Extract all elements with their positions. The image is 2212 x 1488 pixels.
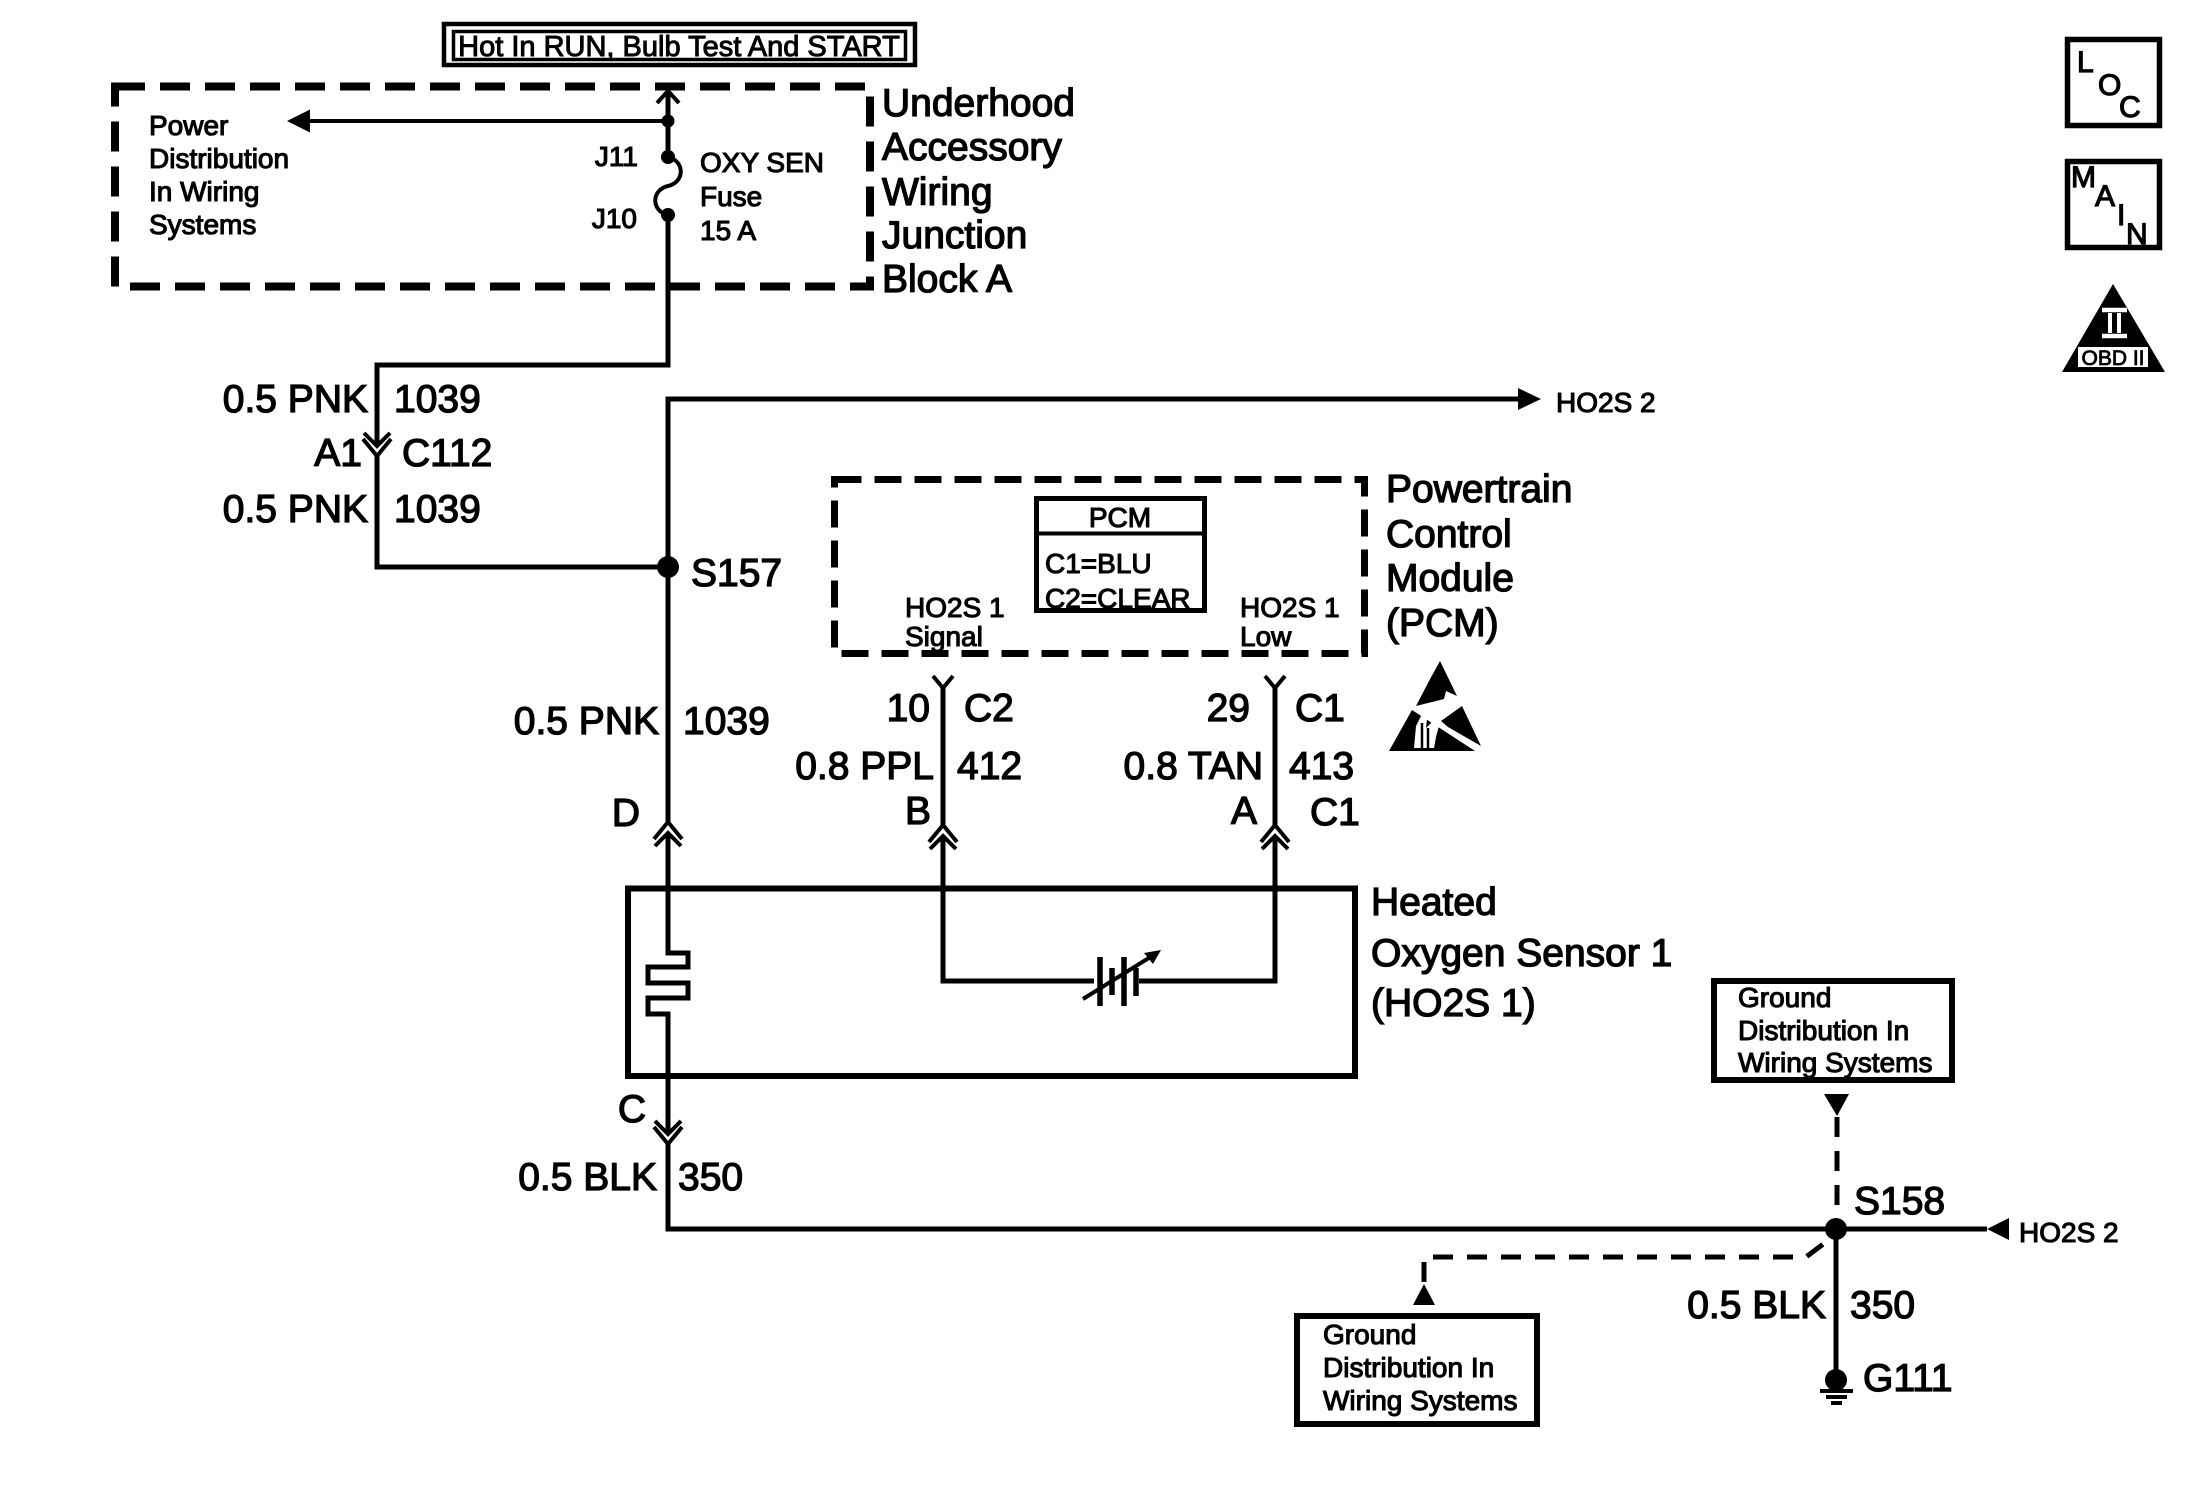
svg-text:C: C <box>618 1088 646 1131</box>
svg-text:J11: J11 <box>595 141 638 172</box>
svg-text:Power: Power <box>149 110 228 141</box>
svg-text:L: L <box>2077 46 2094 79</box>
svg-text:OXY SEN: OXY SEN <box>700 147 824 178</box>
svg-text:M: M <box>2071 161 2096 194</box>
svg-text:Control: Control <box>1386 513 1512 556</box>
svg-text:HO2S 1: HO2S 1 <box>905 592 1005 623</box>
svg-text:0.5 BLK: 0.5 BLK <box>1687 1284 1826 1327</box>
svg-text:J10: J10 <box>592 203 637 234</box>
svg-text:Distribution: Distribution <box>149 143 289 174</box>
svg-text:0.8 PPL: 0.8 PPL <box>795 745 934 788</box>
svg-text:0.5 PNK: 0.5 PNK <box>514 700 659 743</box>
svg-text:0.8 TAN: 0.8 TAN <box>1124 745 1263 788</box>
svg-text:I: I <box>2117 199 2125 232</box>
svg-text:Oxygen Sensor 1: Oxygen Sensor 1 <box>1371 932 1672 975</box>
svg-text:A1: A1 <box>314 432 362 475</box>
svg-text:Block A: Block A <box>882 258 1012 301</box>
svg-text:A: A <box>1231 790 1257 833</box>
svg-text:Underhood: Underhood <box>882 82 1075 125</box>
svg-text:(PCM): (PCM) <box>1386 602 1499 645</box>
svg-text:Powertrain: Powertrain <box>1386 468 1572 511</box>
svg-text:N: N <box>2126 218 2148 251</box>
svg-text:15 A: 15 A <box>700 215 756 246</box>
svg-text:PCM: PCM <box>1089 502 1151 533</box>
svg-text:1039: 1039 <box>683 700 770 743</box>
svg-text:Wiring: Wiring <box>882 171 993 214</box>
svg-text:Hot In RUN, Bulb Test And STAR: Hot In RUN, Bulb Test And START <box>458 31 900 63</box>
svg-text:0.5 BLK: 0.5 BLK <box>518 1156 657 1199</box>
svg-text:Low: Low <box>1240 621 1292 652</box>
svg-text:Ground: Ground <box>1738 982 1831 1013</box>
svg-text:Accessory: Accessory <box>882 126 1062 169</box>
svg-text:S158: S158 <box>1854 1180 1945 1223</box>
svg-text:C2=CLEAR: C2=CLEAR <box>1045 583 1191 614</box>
svg-text:C1=BLU: C1=BLU <box>1045 548 1152 579</box>
svg-text:Distribution In: Distribution In <box>1323 1352 1494 1383</box>
svg-text:350: 350 <box>1850 1284 1915 1327</box>
svg-text:29: 29 <box>1207 687 1250 730</box>
svg-text:C112: C112 <box>402 432 492 475</box>
svg-text:Fuse: Fuse <box>700 181 762 212</box>
svg-text:Junction: Junction <box>882 214 1027 257</box>
svg-text:S157: S157 <box>691 552 782 595</box>
svg-text:C2: C2 <box>964 687 1014 730</box>
svg-text:Systems: Systems <box>149 209 256 240</box>
svg-text:Wiring Systems: Wiring Systems <box>1323 1385 1517 1416</box>
svg-text:1039: 1039 <box>394 488 481 531</box>
svg-text:0.5 PNK: 0.5 PNK <box>223 378 368 421</box>
svg-text:10: 10 <box>887 687 930 730</box>
svg-text:In Wiring: In Wiring <box>149 176 259 207</box>
svg-text:(HO2S 1): (HO2S 1) <box>1371 982 1536 1025</box>
svg-text:B: B <box>905 790 931 833</box>
svg-text:A: A <box>2095 180 2115 213</box>
svg-text:O: O <box>2098 69 2121 102</box>
svg-text:Heated: Heated <box>1371 881 1497 924</box>
svg-text:Ground: Ground <box>1323 1319 1416 1350</box>
svg-text:HO2S 1: HO2S 1 <box>1240 592 1340 623</box>
svg-text:0.5 PNK: 0.5 PNK <box>223 488 368 531</box>
svg-text:C: C <box>2119 91 2141 124</box>
svg-text:HO2S 2: HO2S 2 <box>2019 1217 2119 1248</box>
svg-text:Distribution In: Distribution In <box>1738 1015 1909 1046</box>
svg-text:C1: C1 <box>1295 687 1345 730</box>
svg-text:HO2S 2: HO2S 2 <box>1556 387 1656 418</box>
svg-text:D: D <box>612 792 640 835</box>
svg-text:413: 413 <box>1289 745 1354 788</box>
svg-text:412: 412 <box>957 745 1022 788</box>
svg-text:350: 350 <box>678 1156 743 1199</box>
svg-text:Wiring Systems: Wiring Systems <box>1738 1047 1932 1078</box>
svg-text:OBD II: OBD II <box>2081 347 2144 370</box>
svg-text:Signal: Signal <box>905 621 983 652</box>
svg-text:C1: C1 <box>1310 791 1360 834</box>
svg-text:1039: 1039 <box>394 378 481 421</box>
svg-text:G111: G111 <box>1863 1357 1953 1400</box>
svg-text:Module: Module <box>1386 557 1514 600</box>
